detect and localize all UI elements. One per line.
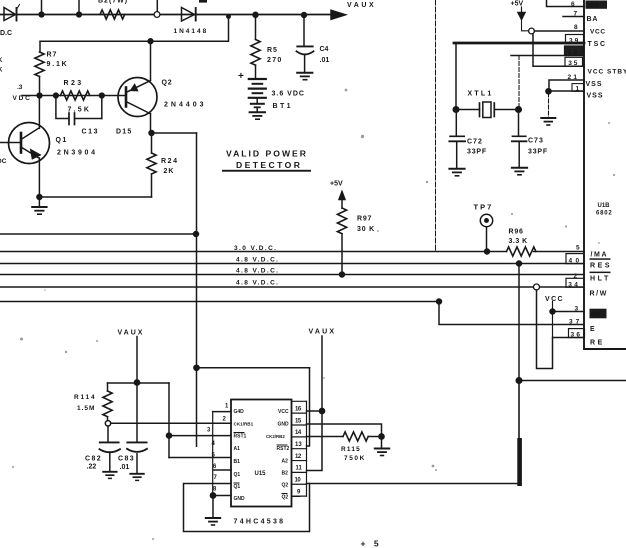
svg-text:9.1K: 9.1K	[47, 61, 69, 68]
svg-text:BA: BA	[587, 16, 599, 23]
wire pin7 Q1bar loop	[184, 484, 310, 532]
svg-text:30 K: 30 K	[357, 226, 375, 233]
resistor R5 270	[255, 15, 257, 40]
wire pin2 CK1/RB1	[111, 422, 231, 424]
svg-text:E: E	[590, 326, 595, 333]
svg-text:R114: R114	[74, 394, 96, 401]
svg-text:A2: A2	[282, 459, 289, 465]
resistor R114 1.5M	[107, 383, 109, 391]
svg-text:1: 1	[576, 85, 580, 92]
svg-text:750K: 750K	[344, 455, 366, 462]
svg-text:6: 6	[571, 1, 575, 8]
junction node on top rail	[77, 12, 82, 17]
svg-text:3.0 V.D.C.: 3.0 V.D.C.	[234, 245, 277, 252]
junction node R97 on HLT line	[340, 272, 345, 277]
svg-text:Q1: Q1	[234, 472, 241, 478]
capacitor C83 .01	[136, 383, 138, 443]
arrow to VAUX	[331, 10, 346, 19]
svg-text:5: 5	[576, 245, 580, 252]
wire pin10 Q2 output	[307, 483, 520, 485]
label NMI badge	[586, 1, 608, 9]
junction node pin16	[319, 408, 324, 413]
svg-text:B1: B1	[234, 459, 241, 465]
svg-text:+5V: +5V	[511, 1, 524, 8]
pin 35 number boxed	[565, 57, 583, 66]
junction node RES line	[517, 261, 522, 266]
wire rail right end down to pins 3,5	[168, 383, 170, 458]
svg-text:RE: RE	[590, 340, 605, 347]
ground (Q1)	[38, 197, 40, 207]
wire pin14 + resistor R115 750K	[307, 436, 344, 438]
svg-text:.3: .3	[17, 84, 23, 91]
svg-text:VAUX: VAUX	[347, 2, 376, 9]
svg-text:33PF: 33PF	[528, 149, 548, 156]
ground (C4)	[297, 72, 312, 74]
svg-text:VSS: VSS	[587, 93, 604, 100]
wire stub up from circle	[156, 0, 158, 11]
wire branch to U15 pin13	[197, 367, 310, 369]
junction node	[516, 378, 522, 384]
svg-text:C4: C4	[320, 46, 329, 53]
pin 38 number boxed dark	[565, 46, 584, 55]
label MR badge	[590, 309, 607, 319]
resistor R24 2K	[151, 133, 153, 153]
svg-text:7.5K: 7.5K	[68, 107, 92, 114]
svg-text:U1B: U1B	[598, 203, 611, 209]
svg-text:DC: DC	[0, 158, 7, 165]
pin 8 VCC wire	[534, 30, 584, 32]
svg-text:R/W: R/W	[590, 291, 608, 298]
wire Q1 emitter down	[38, 158, 40, 197]
diode CR (left edge, cut)	[4, 8, 16, 21]
pin 38 EXTAL wire	[511, 55, 584, 57]
capacitor C72 33PF	[455, 110, 457, 136]
node circle R114/C82/pin2	[105, 421, 110, 426]
transistor Q2 2N4403	[118, 78, 157, 117]
svg-text:+: +	[238, 71, 244, 82]
svg-text:MR: MR	[592, 313, 602, 319]
ground (BT1)	[250, 111, 265, 113]
svg-text:GND: GND	[278, 422, 290, 428]
wire pin16 VCC	[307, 410, 323, 412]
resistor R7	[35, 52, 44, 76]
svg-text:HLT: HLT	[590, 276, 611, 283]
svg-text:VALID POWER: VALID POWER	[226, 149, 308, 159]
svg-text:C72: C72	[467, 139, 483, 146]
wire top VAUX rail	[0, 14, 331, 16]
resistor R23 7.5K	[60, 91, 89, 100]
svg-text:VCC STBY: VCC STBY	[588, 69, 626, 76]
junction node E wire corner	[437, 299, 442, 304]
svg-text:21: 21	[568, 74, 580, 81]
junction node crystal left	[453, 107, 459, 113]
label D (cut at top)	[199, 0, 207, 3]
svg-text:G4D: G4D	[234, 409, 245, 415]
resistor R97 30K	[337, 208, 346, 234]
pin number boxes right column	[306, 401, 308, 496]
svg-text:VCC: VCC	[278, 409, 289, 415]
svg-text:B2: B2	[282, 471, 289, 477]
wire Q1 collector to node	[38, 96, 40, 129]
pin 40 number boxed	[566, 254, 584, 264]
svg-text:B2(7W): B2(7W)	[98, 0, 128, 4]
wire pin1	[213, 411, 231, 413]
wire stub up to edge	[78, 0, 80, 15]
svg-text:VCC: VCC	[590, 29, 606, 36]
node .3 VDC wire	[22, 95, 126, 97]
junction node R5 top	[253, 12, 258, 17]
svg-text:.01: .01	[320, 57, 330, 64]
svg-text:VSS: VSS	[586, 81, 603, 88]
wire second rail from R7 top to top rail	[40, 15, 229, 52]
svg-text:R5: R5	[267, 47, 278, 54]
node circle VCC junction	[529, 28, 535, 34]
junction node	[194, 232, 199, 237]
pin 34 number boxed	[566, 278, 584, 287]
transistor Q1 2N3904	[9, 123, 50, 164]
junction node VAUX/C83	[134, 380, 139, 385]
svg-text:R96: R96	[509, 229, 524, 236]
wire TSC down to crystal	[455, 43, 457, 110]
ground (C72)	[449, 168, 464, 170]
wire upper stub rail	[0, 233, 196, 235]
svg-text:C73: C73	[528, 138, 544, 145]
svg-text:C13: C13	[82, 129, 100, 136]
svg-text:C82: C82	[85, 456, 102, 463]
node circle R/W junction	[534, 284, 540, 290]
junction node riser branch	[194, 365, 199, 370]
junction node C4 top	[302, 13, 307, 18]
svg-text:VAUX: VAUX	[309, 329, 337, 336]
resistor R21(7W)	[100, 10, 125, 19]
op chip U1B 6802 left edge	[584, 0, 626, 349]
svg-text:D.C: D.C	[0, 30, 12, 37]
svg-text:13: 13	[295, 442, 302, 448]
svg-text:4.8 V.D.C.: 4.8 V.D.C.	[236, 280, 279, 287]
svg-text:TSC: TSC	[588, 41, 607, 48]
diode 1N4148	[182, 8, 195, 22]
wire riser down to Q2 output line (thick blob)	[518, 381, 520, 484]
svg-text:36: 36	[571, 332, 583, 339]
svg-text:.01: .01	[120, 464, 130, 471]
junction node pin8 GND	[210, 493, 215, 498]
wire ground rail to R24 bottom	[39, 196, 151, 198]
svg-text:RST2: RST2	[277, 446, 290, 452]
wire faint vertical (cut at top)	[435, 0, 437, 252]
wire horizontal R114 rail	[108, 382, 170, 384]
svg-text:R24: R24	[161, 158, 179, 165]
svg-text:GND: GND	[234, 496, 246, 502]
svg-text:40: 40	[569, 257, 583, 264]
svg-text:U15: U15	[255, 471, 267, 477]
svg-text:4.8 V.D.C.: 4.8 V.D.C.	[236, 268, 279, 275]
svg-text:35: 35	[568, 60, 579, 67]
svg-text:BT1: BT1	[273, 103, 293, 110]
svg-text:VAUX: VAUX	[118, 330, 145, 337]
svg-text:.22: .22	[87, 464, 97, 471]
pin 6 NMI wire	[547, 0, 585, 7]
wire Q2 upper lead	[150, 41, 152, 79]
capacitor C4 .01	[303, 15, 305, 46]
junction node R115/gnd	[379, 434, 384, 439]
svg-text:2K: 2K	[164, 168, 175, 175]
pin 21 VSS wire	[549, 80, 584, 91]
svg-text:VCC: VCC	[545, 296, 564, 303]
wire long riser Q2 node to U15	[196, 133, 198, 446]
svg-text:2N4403: 2N4403	[164, 102, 207, 109]
svg-text:RES: RES	[590, 263, 612, 270]
svg-text:/MA: /MA	[591, 252, 609, 259]
svg-text:R115: R115	[341, 446, 361, 453]
ground (VSS)	[541, 117, 555, 119]
wire Q2 lower lead	[150, 114, 152, 134]
junction node crystal right	[516, 107, 522, 113]
ic U15 74HC4538 body	[231, 400, 292, 507]
svg-text:6802: 6802	[596, 211, 613, 217]
ground (U15 pin8)	[212, 496, 214, 518]
wire VAUX mid drop to VCC pin16	[321, 336, 323, 411]
wire stub up to edge	[41, 0, 43, 15]
wire pin15 GND to ground	[307, 424, 382, 437]
svg-text:3: 3	[575, 306, 579, 313]
svg-text:Q2: Q2	[282, 483, 289, 489]
wire bus line 3 (4.8 VDC HLT)	[0, 274, 584, 276]
wire VSS to ground	[548, 93, 550, 118]
svg-text:+5V: +5V	[330, 181, 343, 188]
pin 7 BA wire	[563, 16, 584, 18]
wire pin6 stub	[213, 469, 231, 471]
svg-text:Q2: Q2	[282, 495, 289, 501]
svg-text:TP7: TP7	[474, 203, 494, 212]
ground (C83)	[130, 473, 143, 475]
capacitor C13 (parallel bracket)	[56, 96, 69, 119]
pin 35 VCC STBY wire	[533, 34, 584, 66]
wire to right edge	[519, 380, 626, 382]
svg-text:CK1/RB1: CK1/RB1	[234, 422, 254, 427]
svg-text:11: 11	[296, 466, 303, 472]
ground (R115)	[381, 437, 383, 449]
crystal XTL1	[456, 109, 480, 111]
svg-text:1N4148: 1N4148	[174, 28, 209, 35]
wire VCC stub to MR pin3	[552, 302, 554, 338]
svg-text:D15: D15	[116, 129, 132, 136]
svg-text:Q1: Q1	[56, 137, 68, 144]
svg-text:R7: R7	[47, 52, 58, 59]
svg-text:33PF: 33PF	[467, 149, 487, 156]
wire pin5 B1	[169, 457, 231, 459]
wire VAUX left drop	[136, 337, 138, 383]
ground (C82)	[103, 471, 116, 473]
ground (C73)	[512, 167, 527, 169]
pin 39 TSC wire (thick)	[454, 42, 584, 45]
svg-text:4.8 V.D.C.: 4.8 V.D.C.	[236, 257, 279, 264]
svg-text:38: 38	[568, 49, 579, 56]
svg-text:VDC: VDC	[13, 95, 32, 102]
wire RES riser down	[518, 264, 520, 381]
svg-text:NMI: NMI	[588, 3, 599, 9]
capacitor C73 33PF	[518, 112, 520, 136]
svg-text:37: 37	[569, 319, 582, 326]
+5V arrow (top right)	[521, 7, 523, 12]
test point TP7	[480, 214, 492, 226]
svg-text:CK2/RB2: CK2/RB2	[266, 434, 285, 439]
svg-text:A1: A1	[234, 446, 241, 452]
svg-text:R23: R23	[64, 80, 84, 87]
junction node pin3	[167, 433, 172, 438]
svg-text:270: 270	[267, 57, 283, 64]
svg-text:74HC4538: 74HC4538	[234, 519, 286, 526]
wire bus line 2 (4.8 VDC RES)	[0, 263, 584, 265]
wire line 5 (E)	[0, 301, 439, 303]
wire bus line 4 (4.8 VDC R/W)	[0, 286, 584, 288]
+5V arrow to R97	[339, 192, 345, 200]
svg-text:Q2: Q2	[162, 80, 173, 87]
junction node TP7 on line1	[485, 249, 490, 254]
svg-text:XTL1: XTL1	[468, 91, 494, 98]
pin 1 number boxed	[572, 84, 584, 92]
junction node Q2/R24	[149, 131, 154, 136]
wire pin8 GND	[213, 495, 231, 497]
wire bus line 1 (3.0 VDC /MA)	[0, 251, 507, 253]
junction node Q2 collector riser	[148, 39, 153, 44]
junction node on top rail	[39, 12, 44, 17]
battery BT1 3.6VDC	[249, 78, 266, 80]
pin 1 VSS wire	[549, 90, 584, 92]
svg-text:3.3 K: 3.3 K	[509, 238, 528, 245]
svg-text:RST1: RST1	[234, 434, 247, 440]
pin 36 number boxed	[569, 329, 585, 338]
wire R/W to RE pin36	[537, 290, 585, 369]
wire E to pin 37	[439, 302, 584, 325]
junction node Q1 emitter / ground	[37, 195, 42, 200]
svg-text:8: 8	[574, 24, 578, 31]
svg-text:34: 34	[568, 281, 580, 288]
svg-text:Q1: Q1	[234, 484, 241, 490]
svg-text:3.6 VDC: 3.6 VDC	[272, 91, 305, 98]
svg-text:C83: C83	[118, 456, 135, 463]
svg-text:DETECTOR: DETECTOR	[236, 160, 302, 170]
wire pin1 to gnd riser	[212, 412, 214, 496]
pin9 underline mark	[292, 497, 301, 500]
svg-text:7: 7	[574, 11, 578, 18]
svg-text:1.5M: 1.5M	[77, 405, 95, 412]
svg-text:2N3904: 2N3904	[57, 150, 98, 157]
wire node to long riser	[152, 132, 197, 134]
svg-text:R97: R97	[357, 216, 372, 223]
wire VAUX to pin11 B2	[307, 411, 323, 471]
wire pin3 RST1	[169, 435, 231, 437]
capacitor C82 .22	[107, 426, 109, 442]
node circle (connector)	[154, 12, 160, 18]
resistor R96 3.3K	[507, 247, 536, 256]
svg-text:+ 5: + 5	[361, 539, 382, 548]
svg-text:39: 39	[569, 38, 580, 45]
pin 39 number boxed	[566, 35, 584, 44]
